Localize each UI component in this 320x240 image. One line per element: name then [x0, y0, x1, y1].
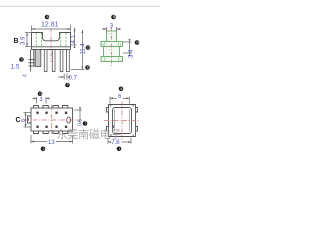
svg-text:F: F [67, 83, 69, 87]
svg-text:7.8: 7.8 [111, 140, 120, 146]
svg-text:E: E [87, 66, 89, 70]
svg-text:3.4: 3.4 [129, 49, 135, 58]
svg-text:C: C [16, 117, 21, 124]
svg-text:L: L [119, 147, 121, 151]
svg-text:0.5: 0.5 [78, 119, 84, 126]
svg-text:4.1: 4.1 [71, 34, 77, 43]
svg-text:6: 6 [21, 119, 27, 122]
svg-text:I: I [85, 122, 86, 126]
svg-text:4: 4 [23, 74, 29, 77]
svg-text:东莞南磁电子: 东莞南磁电子 [57, 128, 122, 141]
svg-text:3: 3 [40, 97, 43, 103]
svg-text:11.4: 11.4 [81, 43, 87, 55]
svg-text:12.81: 12.81 [41, 22, 59, 29]
svg-text:B: B [14, 38, 19, 45]
svg-text:B: B [113, 15, 115, 19]
svg-text:0.7: 0.7 [69, 76, 78, 82]
svg-text:13: 13 [48, 140, 55, 146]
svg-text:1.5: 1.5 [11, 64, 20, 71]
svg-text:3.9: 3.9 [21, 36, 27, 45]
